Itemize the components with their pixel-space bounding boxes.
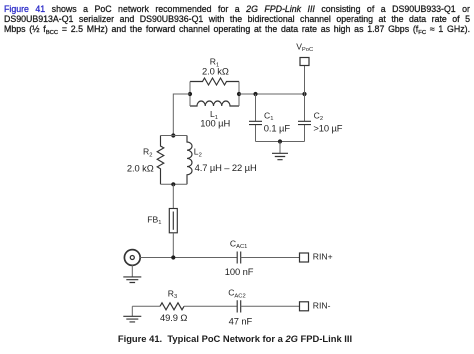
svg-text:100 nF: 100 nF bbox=[225, 266, 254, 277]
inductor L2 bbox=[187, 136, 257, 185]
svg-text:R3: R3 bbox=[168, 288, 177, 300]
svg-text:RIN+: RIN+ bbox=[313, 252, 333, 262]
ferrite bead FB1 bbox=[147, 209, 177, 233]
node: R2/L2 top junction bbox=[171, 133, 175, 137]
wire: R2/L2 box top/bottom sides bbox=[161, 136, 188, 185]
node: R1/L1 right junction bbox=[237, 92, 241, 96]
capacitor CAC2 bbox=[228, 288, 252, 327]
node: R1/L1 left junction bbox=[188, 92, 192, 96]
svg-text:47 nF: 47 nF bbox=[229, 315, 253, 326]
ground (C1/C2) bbox=[272, 142, 288, 160]
resistor R3 bbox=[160, 288, 187, 323]
svg-text:100 µH: 100 µH bbox=[200, 117, 230, 128]
wire: R1/L1 box side edges bbox=[190, 82, 239, 107]
resistor R1 bbox=[190, 57, 239, 85]
svg-text:CAC1: CAC1 bbox=[230, 238, 248, 250]
wire: C1-C2 bottom rail bbox=[256, 141, 305, 143]
svg-text:49.9 Ω: 49.9 Ω bbox=[160, 312, 187, 323]
terminal RIN+ bbox=[300, 252, 333, 262]
svg-text:FB1: FB1 bbox=[147, 214, 161, 226]
inductor L1 bbox=[190, 101, 239, 128]
svg-text:4.7 µH – 22 µH: 4.7 µH – 22 µH bbox=[195, 162, 257, 173]
wire: VPoC drop bbox=[304, 66, 306, 95]
node: R2/L2 bottom junction bbox=[171, 182, 175, 186]
wire: CAC2 to RIN- bbox=[241, 305, 300, 307]
wire: CAC1 to RIN+ bbox=[241, 257, 300, 259]
wire: left node to R2/L2 top bbox=[173, 94, 190, 136]
resistor R2 bbox=[127, 136, 164, 185]
capacitor CAC1 bbox=[225, 238, 254, 277]
svg-text:RIN-: RIN- bbox=[313, 300, 331, 310]
ground (R3) bbox=[123, 306, 141, 322]
wire: coax to CAC1 bbox=[140, 257, 237, 259]
node: FB1 junction bbox=[171, 255, 175, 259]
capacitor C1 bbox=[249, 94, 290, 142]
wire: FB1 to main line bbox=[172, 233, 174, 258]
wire: R3 to CAC2 bbox=[184, 305, 237, 307]
svg-text:>10 µF: >10 µF bbox=[313, 123, 342, 134]
ground (coax) bbox=[123, 265, 141, 282]
terminal RIN- bbox=[300, 300, 331, 310]
svg-text:C2: C2 bbox=[314, 110, 323, 122]
terminal VPoC bbox=[296, 41, 313, 65]
node: ground tap bbox=[278, 139, 282, 143]
svg-text:2.0 kΩ: 2.0 kΩ bbox=[202, 66, 229, 77]
coax connector bbox=[124, 250, 140, 266]
svg-text:C1: C1 bbox=[264, 110, 273, 122]
svg-text:R2: R2 bbox=[143, 147, 152, 159]
svg-text:CAC2: CAC2 bbox=[228, 288, 246, 300]
wire: to FB1 bbox=[172, 184, 174, 208]
wire: ground corner to R3 bbox=[132, 305, 160, 307]
svg-text:L2: L2 bbox=[194, 147, 202, 159]
svg-text:2.0 kΩ: 2.0 kΩ bbox=[127, 162, 154, 173]
svg-text:VPoC: VPoC bbox=[296, 41, 313, 53]
node: C1 tap bbox=[253, 92, 257, 96]
node: VPoC/C2 junction bbox=[302, 92, 306, 96]
svg-text:0.1 µF: 0.1 µF bbox=[264, 123, 291, 134]
capacitor C2 bbox=[298, 94, 343, 142]
wire: top rail from R1/L1 to VPoC bbox=[239, 93, 305, 95]
